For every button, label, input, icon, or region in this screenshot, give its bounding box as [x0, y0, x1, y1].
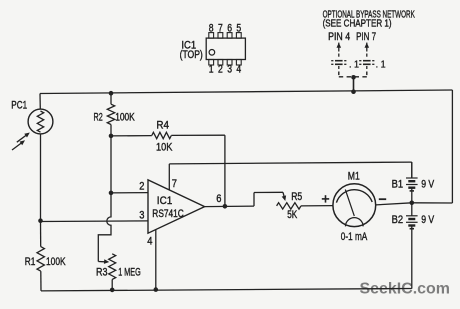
svg-text:5: 5 — [236, 22, 241, 34]
svg-text:M1: M1 — [348, 170, 360, 182]
svg-text:. 1: . 1 — [376, 59, 386, 70]
wire pin4 V- to ground rail — [155, 230, 157, 290]
wire pin7 V+ supply — [169, 162, 411, 189]
label RS741C — [152, 208, 184, 220]
svg-text:PIN 4: PIN 4 — [328, 31, 350, 43]
label IC1 package — [181, 39, 196, 51]
svg-text:8: 8 — [209, 22, 214, 34]
wire left rail PC1 to node A — [40, 134, 42, 221]
label R1 — [25, 256, 36, 268]
label pin 6 — [216, 193, 221, 205]
svg-text:B1: B1 — [392, 179, 404, 191]
label PC1 — [11, 99, 27, 111]
label package pins 1234 — [209, 63, 241, 75]
junction R3 bottom on ground rail — [110, 288, 115, 293]
svg-text:(SEE CHAPTER 1): (SEE CHAPTER 1) — [323, 18, 392, 30]
svg-text:7: 7 — [218, 22, 223, 34]
svg-text:4: 4 — [147, 236, 152, 248]
svg-text:9 V: 9 V — [421, 214, 435, 226]
label package pins 8765 — [209, 22, 241, 34]
junction bypass join — [351, 75, 356, 80]
wire node A to R1 — [40, 221, 42, 247]
photocell PC1 — [12, 109, 53, 150]
label R3 — [96, 267, 108, 279]
label M1 — [348, 170, 360, 182]
svg-text:3: 3 — [227, 63, 232, 75]
label optional bypass line2 — [323, 18, 392, 30]
label meter range 0-1 mA — [341, 231, 368, 243]
label R4 value 10K — [156, 141, 173, 153]
junction output node — [223, 204, 228, 209]
svg-text:6: 6 — [216, 193, 221, 205]
wire left rail top corner — [39, 94, 41, 110]
label R5 — [291, 191, 302, 203]
resistor R4 — [111, 132, 225, 206]
svg-text:1: 1 — [209, 63, 214, 75]
svg-text:B2: B2 — [392, 214, 404, 226]
junction pin2 tap — [109, 191, 114, 196]
wire output pin6 — [205, 192, 283, 206]
meter M1 — [333, 184, 376, 227]
svg-text:5K: 5K — [287, 209, 297, 221]
svg-text:PC1: PC1 — [11, 99, 27, 111]
label B1 — [392, 179, 404, 191]
svg-text:100K: 100K — [115, 112, 135, 124]
svg-text:4: 4 — [236, 63, 241, 75]
label pin 4 — [147, 236, 152, 248]
svg-text:PIN 7: PIN 7 — [356, 31, 376, 43]
svg-text:7: 7 — [172, 178, 177, 190]
wire non-inverting input pin3 — [41, 220, 149, 223]
label B2 — [392, 214, 404, 226]
potentiometer R5 — [277, 203, 333, 209]
svg-text:R4: R4 — [156, 120, 169, 132]
wire node B to R3 wiper (hop over pin3 wire) — [98, 193, 111, 264]
svg-text:0-1 mA: 0-1 mA — [341, 231, 368, 243]
junction node A — [38, 218, 43, 223]
svg-text:9 V: 9 V — [421, 179, 435, 191]
wire bypass to supply rail — [353, 77, 355, 91]
label R3 value 1 MEG — [118, 267, 141, 279]
label R2 — [94, 111, 103, 123]
label IC1 (in triangle) — [157, 195, 173, 207]
svg-text:IC1: IC1 — [157, 195, 173, 207]
svg-text:R2: R2 — [94, 111, 103, 123]
wire node B down to pin2 tap — [110, 136, 112, 193]
svg-text:R3: R3 — [96, 267, 108, 279]
resistor R2 — [107, 93, 114, 136]
capacitor bypass C-pin4 — [331, 43, 346, 71]
wire inverting input pin2 — [111, 192, 148, 194]
label meter plus — [322, 195, 329, 202]
junction bypass on rail — [351, 89, 356, 94]
label PIN 4 — [328, 31, 350, 43]
svg-text:(TOP): (TOP) — [180, 49, 203, 61]
capacitor bypass C-pin7 — [359, 43, 374, 71]
wire meter to battery midpoint — [376, 203, 412, 205]
label pin 3 — [139, 210, 144, 222]
svg-text:10K: 10K — [156, 141, 173, 153]
label (TOP) — [180, 49, 203, 61]
svg-text:2: 2 — [218, 63, 223, 75]
svg-text:R5: R5 — [291, 191, 302, 203]
op-amp IC1 — [148, 180, 205, 233]
label R4 — [156, 120, 169, 132]
label PIN 7 — [356, 31, 376, 43]
label meter minus — [379, 198, 386, 200]
label pin 7 — [172, 178, 177, 190]
rheostat R3 — [109, 254, 116, 290]
svg-text:. 1: . 1 — [349, 59, 359, 70]
label optional bypass line1 — [323, 9, 415, 21]
label pin 2 — [139, 181, 144, 193]
wire R5 wiper arrow — [282, 192, 286, 201]
label cap value .1 (pin4) — [349, 59, 359, 70]
label B1 value 9 V — [421, 179, 435, 191]
wire bottom ground rail — [41, 289, 412, 291]
label R1 value 100K — [46, 256, 66, 268]
svg-text:2: 2 — [139, 181, 144, 193]
watermark SeekIC.com — [360, 280, 451, 297]
label R2 value 100K — [115, 112, 135, 124]
junction battery midpoint — [410, 201, 415, 206]
label cap value .1 (pin7) — [376, 59, 386, 70]
junction node B (R2/R4) — [109, 134, 114, 139]
svg-text:R1: R1 — [25, 256, 36, 268]
wire top supply rail — [40, 90, 452, 94]
wire dashed bypass join — [339, 72, 367, 77]
battery B2 — [406, 203, 418, 289]
battery B1 — [406, 162, 418, 203]
svg-text:3: 3 — [139, 210, 144, 222]
svg-text:100K: 100K — [46, 256, 66, 268]
label R5 value 5K — [287, 209, 297, 221]
resistor R1 — [37, 247, 44, 291]
wire right rail to battery midpoint — [412, 90, 453, 203]
junction pin4 on ground rail — [154, 287, 159, 292]
label B2 value 9 V — [421, 214, 435, 226]
svg-text:RS741C: RS741C — [152, 208, 184, 220]
svg-text:1 MEG: 1 MEG — [118, 267, 141, 279]
svg-text:6: 6 — [227, 22, 232, 34]
junction R2 top on rail — [109, 91, 114, 96]
IC1 DIP package top view — [206, 33, 245, 65]
